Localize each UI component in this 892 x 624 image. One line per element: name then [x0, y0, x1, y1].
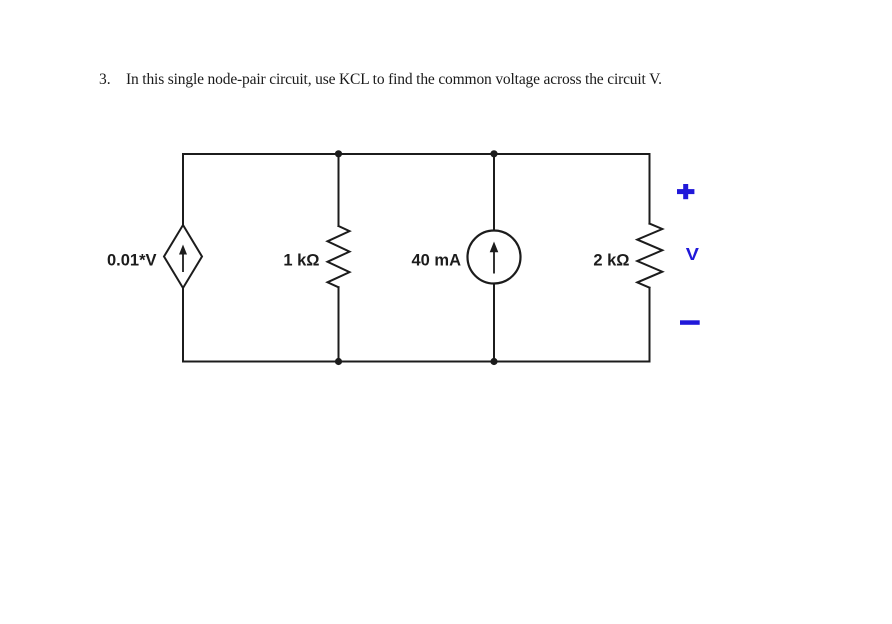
svg-text:40 mA: 40 mA — [411, 252, 461, 270]
svg-text:1 kΩ: 1 kΩ — [283, 252, 319, 270]
svg-text:V: V — [686, 245, 700, 265]
svg-text:2 kΩ: 2 kΩ — [593, 252, 629, 270]
svg-text:0.01*V: 0.01*V — [107, 252, 157, 270]
